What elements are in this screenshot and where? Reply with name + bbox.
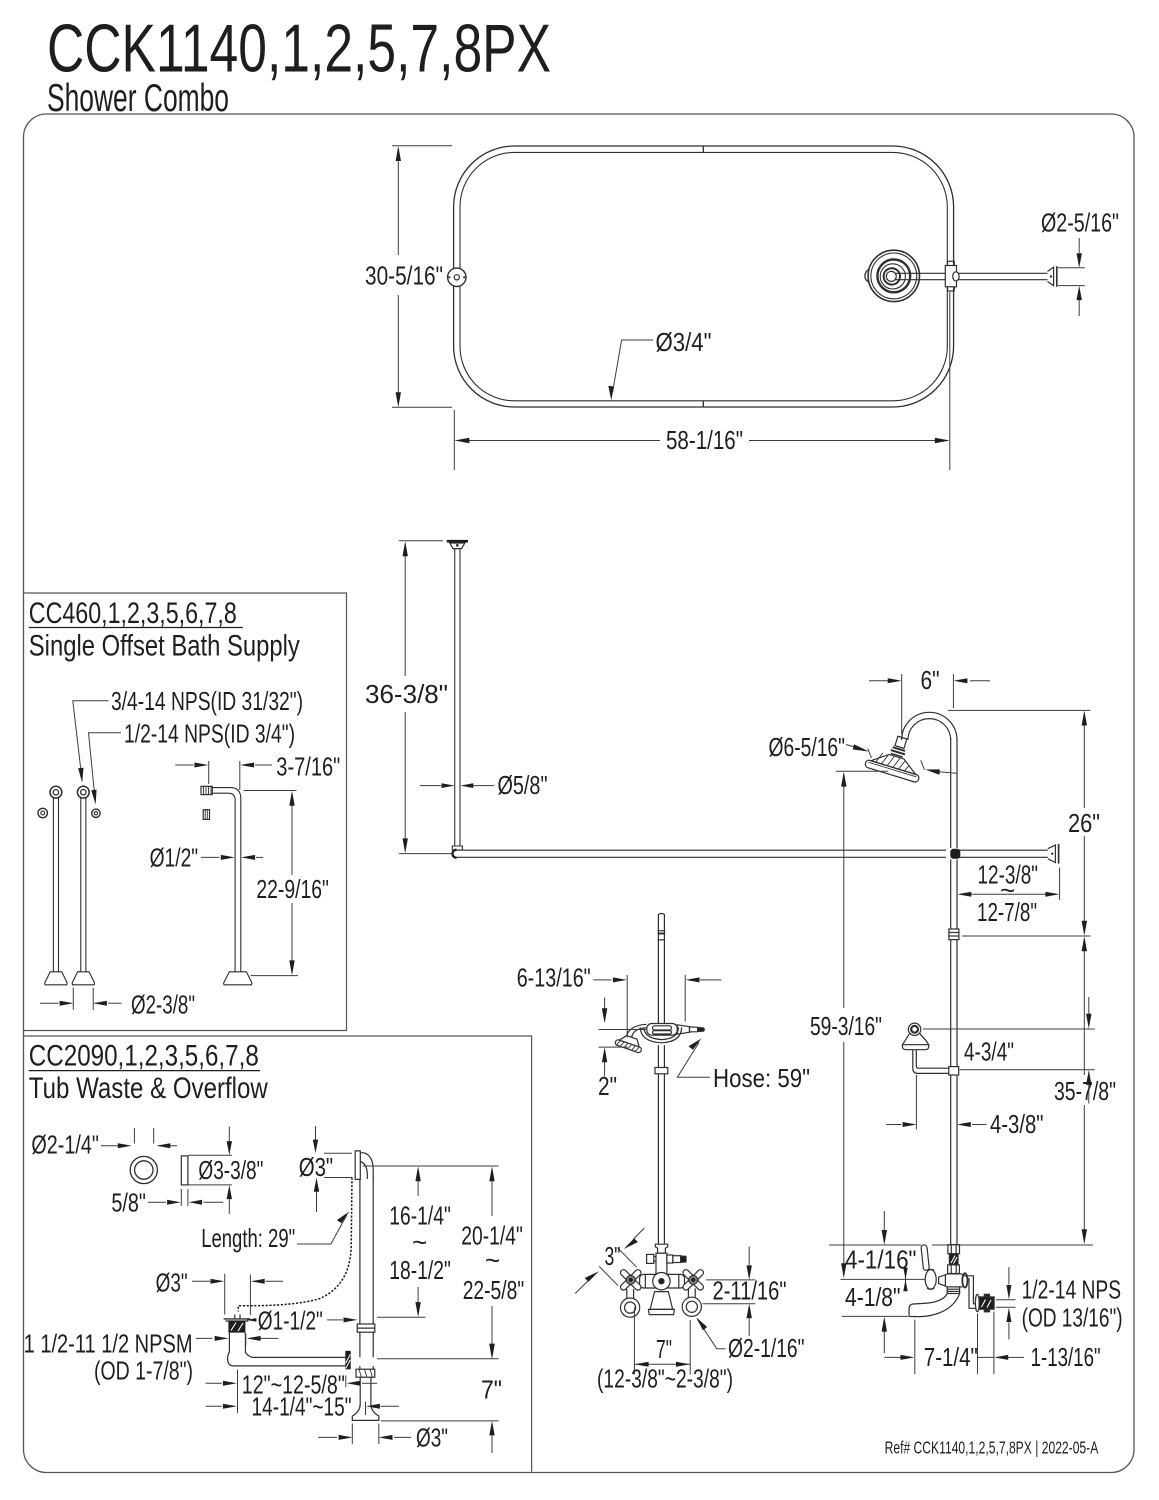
riser union collar: [949, 929, 959, 940]
dim 35-7/8 line upper: [1083, 939, 1085, 1075]
svg-text:CC2090,1,2,3,5,6,7,8: CC2090,1,2,3,5,6,7,8: [29, 1039, 259, 1072]
leader Hose: 59: [677, 1043, 710, 1078]
coupling nut: [655, 1068, 668, 1074]
svg-text:Ø2-1/4": Ø2-1/4": [31, 1130, 99, 1160]
svg-text:Tub Waste & Overflow: Tub Waste & Overflow: [29, 1072, 268, 1105]
dim 22-9/16 line: [291, 794, 293, 875]
dim 2 lower line: [604, 1050, 606, 1076]
head lower arrow line: [939, 772, 957, 774]
offset supply base flare: [224, 972, 252, 985]
leader Ø2-1/16: [698, 1320, 726, 1349]
arrowheads plan dims: [396, 146, 401, 161]
svg-text:Ø3-3/8": Ø3-3/8": [198, 1155, 263, 1185]
lever handle: [921, 1245, 930, 1271]
svg-text:1/2-14 NPS: 1/2-14 NPS: [1022, 1274, 1122, 1304]
dim 1-13/16 arrow line: [1008, 1356, 1024, 1358]
svg-text:Ø6-5/16": Ø6-5/16": [769, 732, 846, 762]
dim 2-11/16 lines: [748, 1247, 750, 1266]
dim 1/2-14 NPS ext lines: [996, 1299, 1016, 1301]
dim 2 upper line: [604, 998, 606, 1021]
strainer nipple: [228, 1333, 230, 1349]
slip nut collar: [356, 1369, 375, 1377]
shower head side view (tilted): [864, 729, 928, 782]
tube 1 top ball fitting: [50, 786, 62, 798]
washer ext lines: [133, 1128, 135, 1144]
label Ø5/8 arrows: [420, 785, 441, 787]
tailpiece: [359, 1377, 361, 1404]
leader Ø6-5/16: [846, 745, 864, 750]
svg-text:Ø1-1/2": Ø1-1/2": [258, 1306, 323, 1336]
right coupling ring: [962, 1273, 967, 1287]
svg-text:(12-3/8"~2-3/8"): (12-3/8"~2-3/8"): [597, 1364, 733, 1394]
dim tick head upper-left: [868, 749, 872, 759]
dim 4-3/4 extension top (hook ball): [923, 1028, 1095, 1030]
svg-text:Length: 29": Length: 29": [201, 1223, 295, 1253]
label Ø2-1/4 leader: [101, 1145, 118, 1147]
dim 4-1/16 upper arrow line: [883, 1211, 885, 1231]
diverter right hose nipple: [667, 1255, 673, 1263]
dim 26 / 35-7/8 shared extension at riser collar: [962, 935, 1091, 937]
cross handle right: [675, 1261, 712, 1298]
dim 26 line upper: [1083, 714, 1085, 809]
overflow standpipe: [352, 1177, 379, 1420]
drain strainer: [224, 1315, 251, 1349]
faucet center boss: [653, 1273, 670, 1290]
dim 3 tick upper: [618, 1248, 637, 1267]
left cone adapter: [939, 1275, 946, 1286]
dim Ø2-3/8 ext lines: [72, 988, 74, 1011]
overflow elbow: [360, 1153, 373, 1179]
rod foot collar: [452, 846, 462, 850]
svg-text:16-1/4": 16-1/4": [389, 1201, 451, 1231]
ext line at spout bottom: [842, 1315, 908, 1317]
ext at waste arm level: [377, 1358, 499, 1360]
dim line between: [978, 1356, 994, 1358]
dim 7 ext right: [689, 1320, 691, 1375]
dim 30-5/16 line: [397, 149, 399, 255]
svg-text:7": 7": [656, 1334, 672, 1364]
arrowheads side view dims: [403, 541, 408, 556]
svg-text:3/4-14 NPS(ID 31/32"): 3/4-14 NPS(ID 31/32"): [111, 686, 303, 716]
svg-text:6": 6": [921, 665, 940, 695]
svg-text:CCK1140,1,2,5,7,8PX: CCK1140,1,2,5,7,8PX: [47, 11, 551, 87]
supply tube 2: [72, 786, 100, 985]
dim 6-13/16 arrow lines: [593, 979, 611, 981]
dim 30-5/16 extension bottom: [392, 406, 452, 408]
threaded end: [201, 786, 212, 794]
dim 12-3/8~12-7/8 extension at wall flange: [1059, 868, 1061, 901]
small double arrow at ext2: [905, 1268, 907, 1292]
dim 7 arrows: [489, 1344, 494, 1359]
faucet body bar: [640, 1274, 685, 1288]
gasket (edge view): [181, 1156, 188, 1185]
svg-text:4-1/16": 4-1/16": [845, 1245, 917, 1275]
arrowheads right assembly dims: [882, 1230, 887, 1245]
tick at nipple right: [245, 1334, 247, 1346]
wall flange right (plan): [1048, 266, 1057, 287]
rail left end cap: [452, 850, 456, 858]
svg-text:~: ~: [485, 1245, 500, 1275]
svg-text:2-11/16": 2-11/16": [713, 1276, 787, 1306]
dim 59-3/16 line: [843, 775, 845, 1009]
rail seam joint bottom: [702, 401, 704, 408]
dim 16-1/4 etc shared top ext: [363, 1165, 499, 1167]
supply coupler necks: [627, 1288, 695, 1298]
tailpiece center tick: [365, 1402, 367, 1416]
union hatched joint: [345, 1351, 350, 1370]
dim 4-3/4 extension bottom (hook arm): [960, 1069, 1095, 1071]
dim 5/8 leader line: [148, 1201, 166, 1203]
svg-text:(OD 13/16"): (OD 13/16"): [1022, 1302, 1123, 1332]
svg-text:7": 7": [481, 1375, 502, 1405]
curtain rail side view: [452, 850, 1047, 858]
dim 7-1/4 left arrow line: [884, 1356, 900, 1358]
dim 35-7/8 line lower: [1083, 1105, 1085, 1241]
dim 6-13/16 extension left: [626, 975, 628, 1038]
label Ø1-1/2 leaders: [247, 1319, 253, 1321]
svg-text:22-9/16": 22-9/16": [256, 874, 329, 904]
cradle yoke saddle: [640, 1027, 681, 1043]
arrowheads hand shower dims: [613, 977, 627, 982]
nipple flange disc: [975, 1294, 979, 1311]
dim 7 ext left: [633, 1308, 635, 1375]
svg-text:Ø3": Ø3": [299, 1152, 334, 1182]
label NPSM leader arrows: [196, 1337, 213, 1339]
dim 12~12-5/8 ext: [237, 1370, 239, 1414]
dim 58-1/16 extension left: [453, 410, 455, 470]
dim 4-3/8 arrow lines: [886, 1124, 902, 1126]
dim 30-5/16 extension top: [392, 145, 452, 147]
dim 12~12-5/8 left arrow lines: [206, 1382, 222, 1384]
dim Ø3 base arrow lines: [318, 1436, 337, 1438]
dim 12-3/8~12-7/8 arrow lines: [960, 893, 1056, 895]
hand shower cradle holder: [615, 1024, 705, 1054]
threaded dark section: [949, 1254, 958, 1265]
dim 1/2-14 NPS arrow lines: [1008, 1267, 1010, 1285]
svg-text:~: ~: [412, 1227, 427, 1257]
tube 1 base flare: [45, 972, 67, 985]
svg-text:Ø5/8": Ø5/8": [498, 770, 548, 800]
shower riser pipe: [951, 738, 957, 1245]
dim Ø1/2 arrow lines: [201, 856, 220, 858]
union ext tick: [345, 1376, 347, 1388]
shower head plan view (concentric circles): [865, 250, 920, 301]
dim Ø3 base ext ticks: [351, 1424, 353, 1445]
svg-text:2": 2": [598, 1071, 617, 1101]
curtain rail plan view outer: [454, 146, 954, 407]
lift cable: [238, 1178, 352, 1312]
svg-text:3-7/16": 3-7/16": [276, 752, 340, 782]
svg-text:1 1/2-11 1/2 NPSM: 1 1/2-11 1/2 NPSM: [24, 1329, 193, 1359]
dim 6 extension left: [901, 674, 903, 734]
svg-text:7-1/4": 7-1/4": [924, 1342, 978, 1372]
svg-text:Hose: 59": Hose: 59": [713, 1063, 810, 1093]
ext line at valve center: [841, 1278, 925, 1280]
hand shower hose tube: [655, 913, 668, 1244]
ext line at valve top (4-1/16 / 35-7/8 / bottom of 12-x): [829, 1244, 921, 1246]
escutcheon ring right: [92, 809, 100, 817]
dim 3-7/16 ext lines: [208, 761, 210, 784]
diverter knob (edge-on): [925, 1270, 936, 1289]
dim 26 extension top from arc apex: [948, 709, 1091, 711]
standpipe lower section: [359, 1332, 361, 1357]
svg-text:4-1/8": 4-1/8": [845, 1282, 901, 1312]
ext below nipple end: [993, 1312, 995, 1375]
dim 36-3/8 line: [404, 544, 406, 676]
dim Ø3 strainer ext lines: [224, 1274, 226, 1315]
dim 20-1/4~22-5/8 line: [491, 1169, 493, 1216]
threaded nipple (dark): [979, 1297, 994, 1309]
leader Ø3/4: [613, 340, 653, 392]
svg-text:18-1/2": 18-1/2": [389, 1255, 451, 1285]
ceiling mount line: [447, 540, 468, 543]
gooseneck arc: [902, 712, 957, 740]
arm ball joint at clamp: [953, 272, 959, 281]
CC2090 box frame: [24, 1036, 532, 1472]
ceiling flange cup: [450, 543, 465, 549]
dim 59-3/16 extension at head bottom: [836, 770, 888, 772]
svg-text:3": 3": [605, 1241, 621, 1271]
svg-text:1/2-14 NPS(ID 3/4"): 1/2-14 NPS(ID 3/4"): [124, 719, 295, 749]
rail left fitting (plan): [448, 268, 466, 286]
escutcheon ring left: [38, 808, 47, 817]
dim 58-1/16 line: [457, 440, 660, 442]
wall diverter hex nut upper: [909, 1245, 994, 1317]
svg-text:58-1/16": 58-1/16": [666, 425, 743, 455]
faucet spout cone: [650, 1292, 673, 1310]
crank arm to hose nipple: [963, 1276, 976, 1304]
leader 3/4-14 NPS: [73, 701, 121, 791]
dim 4-3/8 extension (hook arm corner): [915, 1075, 917, 1130]
hose ferrule band: [658, 930, 666, 932]
ext at mid collar: [377, 1316, 426, 1318]
dim 22-9/16 ext bottom: [251, 975, 299, 977]
CC460 box frame: [24, 593, 347, 1031]
svg-text:Ø2-3/8": Ø2-3/8": [131, 990, 195, 1020]
dim Ø3 strainer arrow lines: [192, 1280, 210, 1282]
svg-text:CC460,1,2,3,5,6,7,8: CC460,1,2,3,5,6,7,8: [29, 597, 237, 630]
svg-text:Ø3/4": Ø3/4": [656, 327, 712, 357]
supply coupler right: [682, 1297, 701, 1316]
arrowheads faucet dims: [624, 1238, 638, 1249]
ext below nipple flange: [977, 1314, 979, 1375]
wall flange right (side): [1048, 844, 1059, 864]
dim Ø2-3/8 arrow lines: [40, 1002, 59, 1004]
washer (face view): [130, 1156, 188, 1185]
dim 58-1/16 extension right: [949, 292, 951, 470]
svg-text:4-3/8": 4-3/8": [990, 1109, 1044, 1139]
waste arm left elbow under strainer: [228, 1349, 234, 1366]
svg-text:1-13/16": 1-13/16": [1031, 1342, 1101, 1372]
tube 2 top ball fitting: [77, 786, 89, 798]
hand shower head bell: [627, 1024, 647, 1035]
dim 2-11/16 ext upper: [706, 1279, 755, 1281]
tube to faucet: [657, 1074, 659, 1244]
svg-text:14-1/4"~15": 14-1/4"~15": [252, 1392, 352, 1422]
svg-text:30-5/16": 30-5/16": [365, 261, 443, 291]
svg-text:Ø2-1/16": Ø2-1/16": [728, 1333, 805, 1363]
dim Ø3 overflow arrow lines: [315, 1126, 317, 1140]
curtain rail plan view inner: [460, 152, 947, 400]
svg-text:Ø3": Ø3": [156, 1268, 188, 1298]
cradle taper right: [677, 1025, 689, 1034]
dim Ø3-3/8 arrow lines: [228, 1127, 230, 1142]
diverter valve vertical body: [656, 1253, 667, 1274]
tailpiece base flare: [352, 1404, 379, 1420]
label Length: 29 leader: [297, 1215, 347, 1244]
dim 6-13/16 extension right: [684, 975, 686, 1022]
rail clamp block (plan): [945, 261, 959, 291]
small nut below: [203, 810, 209, 820]
diverter left handle: [647, 1254, 654, 1263]
dim Ø2-5/16 extension lines: [1058, 267, 1085, 269]
hand shower hook on riser: [902, 1023, 948, 1073]
dim 36-3/8 rail extension: [399, 853, 452, 855]
dim 3 tick lower: [599, 1266, 618, 1285]
dim 7 line: [634, 1363, 690, 1365]
dim 2 ext lower: [599, 1046, 629, 1048]
overflow head plate: [355, 1151, 373, 1180]
rail-riser clamp (side): [950, 849, 960, 859]
ext below spout mouth: [914, 1320, 916, 1375]
svg-text:36-3/8": 36-3/8": [365, 679, 448, 709]
dim 22-9/16 ext top: [244, 790, 297, 792]
dim 3-7/16 arrow lines: [175, 764, 193, 766]
svg-text:(OD 1-7/8"): (OD 1-7/8"): [94, 1356, 193, 1386]
dim 6 line arrows: [869, 680, 888, 682]
svg-text:35-7/8": 35-7/8": [1054, 1076, 1116, 1106]
dim Ø3 overflow ext lines: [324, 1152, 352, 1154]
dim 7 line arrows: [491, 1338, 493, 1355]
dim 2 ext upper: [599, 1029, 647, 1031]
rail seam joint top: [702, 146, 704, 153]
svg-text:22-5/8": 22-5/8": [463, 1275, 525, 1305]
svg-text:Ø2-5/16": Ø2-5/16": [1041, 208, 1119, 238]
hook arm elbow to riser: [913, 1050, 949, 1074]
dim 2-11/16 ext lower: [703, 1303, 756, 1305]
svg-text:26": 26": [1068, 808, 1100, 838]
svg-text:4-3/4": 4-3/4": [964, 1037, 1014, 1067]
offset supply tube: [201, 786, 252, 985]
hook arm clamp block: [949, 1067, 959, 1075]
tub faucet adapter fitting: [621, 1244, 702, 1317]
dim 26 line lower: [1083, 836, 1085, 933]
supply coupler left: [621, 1298, 640, 1317]
dim 7 ext top (waste arm): [439, 1358, 441, 1360]
dim 3 arrow lines: [634, 1228, 645, 1239]
tube 2 base flare: [72, 972, 95, 985]
5/8 ticks: [180, 1189, 182, 1206]
cross handle left: [612, 1261, 649, 1298]
ceiling support rod Ø5/8: [452, 549, 462, 850]
dim 4-3/4 arrow lines: [1088, 997, 1090, 1014]
svg-text:59-3/16": 59-3/16": [810, 1011, 882, 1041]
dim 16-1/4~18-1/2 line: [417, 1169, 419, 1196]
waste arm: [228, 1349, 351, 1370]
rail right segment to wall: [958, 849, 1048, 851]
svg-text:Single Offset Bath Supply: Single Offset Bath Supply: [29, 629, 300, 662]
supply tube 1: [38, 786, 67, 985]
svg-text:Ø3": Ø3": [416, 1423, 448, 1453]
head support arm (plan): [895, 273, 1048, 279]
dim Ø3-3/8 ext lines: [189, 1154, 233, 1156]
tub spout: [947, 1287, 959, 1294]
standpipe mid collar: [357, 1324, 375, 1332]
svg-text:5/8": 5/8": [111, 1188, 145, 1218]
stopper stem: [234, 1315, 236, 1319]
svg-text:6-13/16": 6-13/16": [517, 963, 591, 993]
diverter valve body: [945, 1274, 963, 1287]
ext at base bottom: [381, 1420, 499, 1422]
dim tick head lower-right: [921, 760, 925, 770]
svg-text:Ø1/2": Ø1/2": [150, 843, 199, 873]
svg-text:Ref# CCK1140,1,2,5,7,8PX | 202: Ref# CCK1140,1,2,5,7,8PX | 2022-05-A: [885, 1438, 1099, 1458]
hex nut lower: [948, 1265, 960, 1274]
dim 36-3/8 ceiling extension: [399, 540, 443, 542]
tube below cradle: [657, 1045, 659, 1067]
dim 4-1/8 lower arrow line: [883, 1331, 885, 1353]
dim Ø2-5/16 arrow lines: [1078, 238, 1080, 253]
svg-text:12-7/8": 12-7/8": [977, 897, 1037, 927]
